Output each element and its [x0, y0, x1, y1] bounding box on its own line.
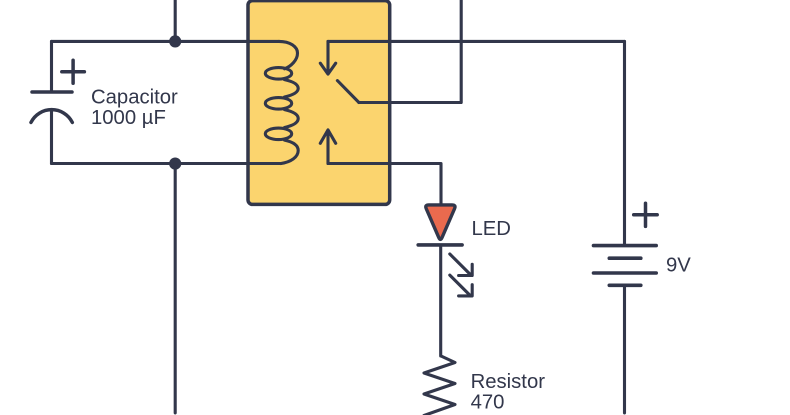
battery BT1 plus sign: [634, 203, 658, 226]
svg-text:Capacitor: Capacitor: [91, 87, 178, 109]
svg-text:470: 470: [471, 392, 505, 414]
svg-text:9V: 9V: [666, 254, 691, 276]
relay common wire out right and up: [359, 0, 461, 103]
relay upper contact arm: [326, 41, 329, 72]
capacitor C1 left lead: [50, 41, 53, 90]
LED light arrow 1: [450, 254, 472, 276]
capacitor C1 curved plate: [31, 110, 72, 123]
LED D1 triangle: [426, 205, 455, 239]
wire top-left vertical into node: [174, 0, 177, 41]
LED light arrow 2: [450, 275, 472, 296]
wire top rail capacitor to coil entry: [52, 40, 280, 43]
relay lower contact arm: [326, 131, 329, 163]
inductor coil L1 (relay coil): [279, 41, 298, 68]
node dot top: [169, 35, 181, 47]
battery BT1 plate short 2: [609, 283, 641, 287]
battery BT1 positive lead: [623, 41, 626, 245]
lower arrowhead up: [320, 130, 335, 143]
wire bottom-left vertical: [174, 164, 177, 413]
relay switch upper contact wire to battery: [328, 40, 625, 43]
relay switch blade: [337, 81, 359, 103]
battery BT1 negative lead: [623, 285, 626, 413]
capacitor C1 top plate: [32, 90, 72, 94]
node dot bottom: [169, 158, 181, 170]
LED D1 cathode bar: [418, 243, 462, 247]
upper arrowhead down: [320, 63, 335, 74]
battery BT1 plate long 1: [594, 244, 657, 248]
svg-text:Resistor: Resistor: [471, 371, 546, 393]
wire lower contact to LED: [328, 164, 441, 205]
capacitor C1 bottom lead: [50, 111, 53, 164]
resistor R1 zigzag: [424, 356, 455, 415]
svg-text:1000 µF: 1000 µF: [91, 107, 166, 129]
wire bottom rail coil exit to capacitor: [52, 162, 282, 165]
svg-text:LED: LED: [472, 218, 511, 240]
LED D1 lead down: [439, 247, 442, 356]
battery BT1 plate long 2: [594, 271, 657, 275]
battery BT1 plate short 1: [609, 256, 641, 260]
relay K1 body: [248, 1, 390, 205]
capacitor C1 plus sign: [62, 60, 85, 83]
